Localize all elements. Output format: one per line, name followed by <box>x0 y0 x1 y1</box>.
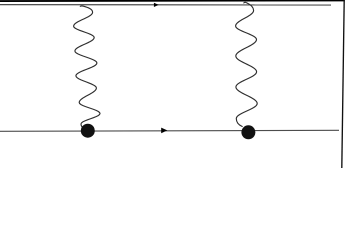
top frame border line <box>0 0 345 2</box>
photon 1 wavy propagator <box>74 6 100 129</box>
right frame border line <box>342 0 344 168</box>
vertex dot 2 <box>241 125 255 139</box>
arrowhead on top fermion line <box>154 3 159 7</box>
arrowhead on bottom fermion line <box>161 128 167 134</box>
bottom fermion line (proton) <box>0 130 339 131</box>
photon 2 wavy propagator <box>236 2 258 126</box>
vertex dot 1 <box>81 124 95 138</box>
top fermion line (electron) <box>0 4 331 6</box>
